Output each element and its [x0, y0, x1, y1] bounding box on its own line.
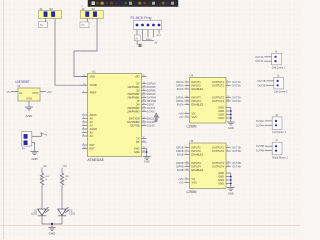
- U1 pin 10 (RST): [82, 148, 88, 150]
- svg-text:OUTPUT2: OUTPUT2: [212, 149, 225, 153]
- U1 pin 14 (1M/PWM4): [142, 86, 147, 88]
- svg-text:D6/PW6: D6/PW6: [147, 91, 156, 93]
- svg-text:VSS: VSS: [192, 181, 197, 185]
- svg-text:Call Linea 2: Call Linea 2: [274, 90, 288, 94]
- svg-text:OUTPUT3: OUTPUT3: [212, 96, 225, 100]
- wire P4 pin1 to VM flag: [32, 135, 42, 137]
- svg-text:U1: U1: [92, 70, 96, 74]
- U1 pin 25 (D4/TXD8): [142, 118, 147, 120]
- ground below U4: [227, 121, 235, 123]
- svg-text:2M/PWM3: 2M/PWM3: [127, 110, 140, 114]
- svg-text:D3/PW3: D3/PW3: [147, 84, 156, 86]
- wire into J7 pin 1: [265, 145, 273, 147]
- LED D1 LED0: [38, 209, 46, 216]
- svg-text:L298N: L298N: [187, 124, 198, 128]
- U5 pin 2 (OUTPUT1): [226, 147, 231, 149]
- J5 pin 1: [277, 80, 279, 82]
- svg-text:INPUT4: INPUT4: [192, 165, 202, 169]
- svg-text:GND: GND: [218, 182, 224, 186]
- U4 pin 4 (VS): [185, 113, 190, 115]
- wire LED common rail: [42, 223, 62, 225]
- svg-text:VS: VS: [192, 177, 196, 181]
- svg-text:U4: U4: [190, 74, 194, 78]
- U1 pin 7 (A3): [82, 132, 88, 134]
- U5 GND pin 1: [226, 172, 231, 174]
- svg-text:EN2B: EN2B: [177, 169, 184, 172]
- U4 pin 2 (OUTPUT1): [226, 81, 231, 83]
- svg-text:OUT2A: OUT2A: [255, 60, 263, 63]
- svg-text:A1: A1: [90, 120, 94, 124]
- svg-text:ENABLE2: ENABLE2: [192, 168, 204, 172]
- junction LED rail: [51, 223, 53, 225]
- sheet border horizontal: [0, 225, 300, 227]
- connector P4 power input: [22, 132, 32, 147]
- jumper J1 pin 2: [51, 12, 55, 17]
- svg-text:OUT1B: OUT1B: [258, 80, 266, 83]
- svg-text:RST: RST: [90, 143, 96, 147]
- U1 pin 23 (2M/PWM0): [142, 107, 147, 109]
- U5 GND pin 4: [226, 183, 231, 185]
- svg-text:RST: RST: [90, 147, 96, 151]
- svg-text:RX: RX: [136, 140, 140, 144]
- U4 GND pin 3: [226, 114, 231, 116]
- svg-text:DA/PWA: DA/PWA: [147, 97, 156, 100]
- U4 pin 10 (INPUT3): [185, 97, 190, 99]
- svg-text:GND: GND: [144, 160, 150, 164]
- ground below LEDs: [48, 227, 56, 229]
- svg-text:AGND: AGND: [90, 127, 98, 131]
- svg-text:GND: GND: [228, 192, 234, 196]
- wire into J4 pin 2: [264, 60, 272, 62]
- U1 pin 27 (D8/TXB): [142, 125, 147, 127]
- svg-text:OUT2B: OUT2B: [258, 84, 266, 87]
- svg-text:ATMEGA8: ATMEGA8: [88, 158, 104, 162]
- wire resistor to LED D1: [41, 185, 43, 209]
- J5 pin 2: [277, 84, 279, 86]
- ground below U1 GND pins: [143, 156, 151, 158]
- U5 GND pin 3: [226, 179, 231, 181]
- wire P1 pin4 down: [153, 30, 155, 38]
- svg-text:A4: A4: [90, 134, 94, 138]
- wire P1 pin3 down: [147, 30, 149, 38]
- junction U1 GND: [146, 151, 148, 153]
- sheet border vertical: [3, 0, 5, 239]
- svg-text:GND: GND: [32, 157, 38, 161]
- wire J2 pin2 to MCU VDD pin: [74, 19, 97, 77]
- pad below P1 pin1: [139, 44, 142, 47]
- U4 pin 14 (OUTPUT4): [226, 100, 231, 102]
- svg-text:AREF: AREF: [90, 91, 97, 95]
- wire D3 down to resistor: [61, 168, 63, 173]
- svg-text:D2/INT: D2/INT: [147, 105, 155, 107]
- svg-text:OUTPUT3: OUTPUT3: [212, 161, 225, 165]
- resistor LB2 1k: [60, 173, 63, 185]
- svg-text:INPUT1: INPUT1: [192, 80, 202, 84]
- svg-text:GND: GND: [134, 147, 140, 151]
- U1 pin 26 (D8/TADB2): [142, 121, 147, 123]
- toolbar overlay fragment: [88, 0, 178, 7]
- wire LED D2 cathode down: [61, 216, 63, 224]
- svg-text:LED2: LED2: [69, 213, 75, 215]
- wire U4 GND pins join: [230, 108, 232, 122]
- U1 pin 2 (ADC6): [82, 114, 88, 116]
- wire P1 pin1 down: [136, 30, 138, 36]
- ground below P4: [31, 151, 39, 153]
- svg-text:1P: 1P: [136, 99, 139, 103]
- svg-text:7.4v: 7.4v: [43, 133, 48, 136]
- wire into J6 pin 2: [265, 124, 273, 126]
- svg-text:U5: U5: [190, 139, 194, 143]
- jumper J2 pin 1: [86, 12, 90, 17]
- U4 pin 12 (INPUT4): [185, 100, 190, 102]
- svg-text:VCDB: VCDB: [90, 83, 97, 87]
- svg-text:+5V: +5V: [47, 90, 52, 94]
- U5 GND pin 2: [226, 176, 231, 178]
- J7 pin 2: [275, 150, 277, 152]
- svg-text:Call Linea 1: Call Linea 1: [272, 65, 286, 69]
- wire into J5 pin 1: [266, 80, 274, 82]
- svg-text:Vin: Vin: [7, 90, 11, 94]
- jumper J1 pin 1: [44, 12, 48, 17]
- svg-text:OUTPUT1: OUTPUT1: [212, 146, 225, 150]
- svg-text:MISO: MISO: [146, 39, 152, 41]
- wire Vin to U3 IN: [11, 91, 18, 93]
- P1 pin 5: [158, 24, 161, 27]
- svg-text:EN2A: EN2A: [177, 104, 184, 107]
- U1 pin 19 (3N): [142, 104, 147, 106]
- junction U5 GND: [230, 176, 232, 178]
- P4 pin 2: [24, 141, 28, 145]
- svg-text:2M/PWM0: 2M/PWM0: [127, 106, 140, 110]
- U4 pin 13 (OUTPUT3): [226, 97, 231, 99]
- P1 pin 1: [136, 24, 139, 27]
- wire P1 pin2 down: [142, 30, 144, 41]
- junction U4 GND: [230, 110, 232, 112]
- svg-text:INPUT4: INPUT4: [192, 99, 202, 103]
- svg-text:GND: GND: [218, 171, 224, 175]
- U1 pin 31 (RX): [142, 141, 147, 143]
- U5 pin 9 (VSS): [185, 182, 190, 184]
- J7 pin 1: [275, 145, 277, 147]
- svg-text:OUT2A: OUT2A: [232, 85, 241, 88]
- P4 pin 1: [24, 134, 28, 138]
- U1 pin 1 (AREF): [82, 92, 88, 94]
- net flag 5V below J1: [39, 22, 48, 28]
- jumper J2 pin 2: [93, 12, 97, 17]
- ground below U3: [25, 106, 33, 108]
- wire U1 GND pins join: [146, 149, 148, 157]
- U5 pin 14 (OUTPUT4): [226, 166, 231, 168]
- svg-text:5V: 5V: [40, 23, 43, 27]
- J4 pin 2: [274, 60, 276, 62]
- svg-text:OUTPUT1: OUTPUT1: [212, 80, 225, 84]
- svg-text:GND: GND: [218, 178, 224, 182]
- svg-text:INPUT2: INPUT2: [192, 149, 202, 153]
- svg-text:VSS: VSS: [192, 115, 197, 119]
- svg-text:GND: GND: [218, 109, 224, 113]
- U4 pin 5 (INPUT1): [185, 81, 190, 83]
- wire U3 OUT to +5V: [40, 91, 46, 93]
- net flag box below P1 pin1: [134, 35, 140, 41]
- svg-text:OUT3B: OUT3B: [256, 145, 264, 148]
- svg-text:+PD: +PD: [134, 75, 139, 79]
- svg-text:D12/MI: D12/MI: [147, 122, 155, 124]
- svg-text:D5/PW5: D5/PW5: [147, 87, 156, 89]
- J4 pin 1: [274, 56, 276, 58]
- svg-text:5V: 5V: [82, 23, 85, 27]
- svg-text:OUT4B: OUT4B: [232, 166, 241, 169]
- svg-text:OUT: OUT: [32, 91, 38, 95]
- LED D2 LED2: [58, 209, 66, 216]
- svg-text:OUT1A: OUT1A: [255, 56, 263, 59]
- svg-text:2N: 2N: [136, 82, 139, 86]
- wire into J6 pin 1: [265, 120, 273, 122]
- junction U5 GND: [230, 179, 232, 181]
- svg-text:GND: GND: [218, 116, 224, 120]
- wire J1 pin2 to MCU VCC pin: [55, 19, 88, 86]
- svg-text:ENABLE1: ENABLE1: [192, 87, 204, 91]
- svg-text:OUTPUT4: OUTPUT4: [212, 165, 225, 169]
- P1 pin 2: [141, 24, 144, 27]
- U5 pin 10 (INPUT3): [185, 162, 190, 164]
- J6 pin 2: [275, 124, 277, 126]
- svg-text:GND: GND: [26, 97, 32, 101]
- wire J1 pin1 to 5V flag: [45, 19, 47, 22]
- svg-text:D8/TADB2: D8/TADB2: [127, 120, 140, 124]
- svg-text:3N: 3N: [136, 89, 139, 93]
- svg-text:D13/SC: D13/SC: [147, 126, 155, 128]
- svg-text:INPUT3: INPUT3: [192, 161, 202, 165]
- U4 GND pin 4: [226, 117, 231, 119]
- svg-text:1M/PWM4: 1M/PWM4: [127, 85, 140, 89]
- svg-text:VDD: VDD: [90, 75, 96, 79]
- U5 pin 4 (VS): [185, 178, 190, 180]
- junction U4 GND: [230, 114, 232, 116]
- U1 pin 30 (TX): [142, 138, 147, 140]
- svg-text:ENABLE1: ENABLE1: [192, 153, 204, 157]
- svg-text:INPUT2: INPUT2: [192, 84, 202, 88]
- svg-text:VS: VS: [192, 112, 196, 116]
- U4 pin 9 (VSS): [185, 116, 190, 118]
- wire resistor to LED D2: [61, 185, 63, 209]
- U1 pin 12 (VCDB): [82, 84, 88, 86]
- U1 pin 9 (RST): [82, 144, 88, 146]
- ground below U5: [227, 187, 235, 189]
- U1 pin 8 (A4): [82, 135, 88, 137]
- svg-text:ADC6: ADC6: [90, 113, 97, 117]
- mouse cursor artifact: [154, 113, 159, 122]
- U4 GND pin 1: [226, 107, 231, 109]
- svg-text:A0: A0: [90, 117, 94, 121]
- svg-text:RST: RST: [157, 35, 162, 37]
- wire D2 down to resistor: [41, 168, 43, 173]
- svg-text:GND: GND: [218, 113, 224, 117]
- junction U4 GND: [230, 117, 232, 119]
- wire LED D1 cathode down: [41, 216, 43, 224]
- U4 pin 6 (ENABLE1): [185, 88, 190, 90]
- U1 pin 6 (AGND): [82, 128, 88, 130]
- svg-text:2M/PWM2: 2M/PWM2: [127, 92, 140, 96]
- svg-text:+5V: +5V: [179, 182, 184, 185]
- svg-text:A3: A3: [90, 131, 94, 135]
- P1 pin 4: [152, 24, 155, 27]
- svg-text:Right Motor 1: Right Motor 1: [272, 155, 288, 159]
- svg-text:GND: GND: [26, 114, 34, 118]
- wire U3 GND pin down: [28, 101, 30, 107]
- net flag 5V below J2: [80, 22, 89, 28]
- svg-text:2M/PWM1: 2M/PWM1: [127, 96, 140, 100]
- U1 pin 4 (A1): [82, 121, 88, 123]
- svg-text:GND: GND: [49, 231, 57, 235]
- svg-text:LM7805T: LM7805T: [16, 80, 30, 84]
- svg-text:D7/AIN: D7/AIN: [147, 111, 155, 114]
- wire U5 GND pins join: [230, 173, 232, 187]
- svg-text:OUT3A: OUT3A: [256, 120, 264, 123]
- IC U1 ATMEGA8 body: [88, 74, 142, 157]
- wire into J5 pin 2: [266, 84, 274, 86]
- wire into J4 pin 1: [264, 56, 272, 58]
- U5 pin 13 (OUTPUT3): [226, 162, 231, 164]
- wire P1 pin2 horizontal: [143, 40, 155, 42]
- svg-text:A2: A2: [90, 124, 94, 128]
- U4 pin 3 (OUTPUT2): [226, 85, 231, 87]
- svg-text:OUT2B: OUT2B: [232, 150, 241, 153]
- svg-text:D8/TXB: D8/TXB: [130, 124, 139, 128]
- svg-text:5V: 5V: [155, 42, 158, 45]
- svg-text:OUTPUT4: OUTPUT4: [212, 99, 225, 103]
- U1 pin 28 (GND): [142, 148, 147, 150]
- U5 pin 6 (ENABLE1): [185, 154, 190, 156]
- resistor LB1 1k: [40, 173, 43, 185]
- U5 pin 5 (INPUT1): [185, 147, 190, 149]
- U4 pin 7 (INPUT2): [185, 85, 190, 87]
- U1 pin 24 (2M/PWM3): [142, 111, 147, 113]
- svg-text:LED0: LED0: [31, 213, 37, 215]
- svg-text:EN1A: EN1A: [177, 88, 184, 91]
- regulator U3 body: [18, 88, 40, 101]
- svg-text:D4/TXD8: D4/TXD8: [129, 117, 140, 121]
- U1 pin 17 (2M/PWM1): [142, 97, 147, 99]
- U5 pin 3 (OUTPUT2): [226, 150, 231, 152]
- svg-text:D8/CLK: D8/CLK: [147, 119, 156, 121]
- wire J2 pin1 to 5V flag: [86, 19, 88, 22]
- wire P4 pin2 to ground: [32, 143, 35, 152]
- svg-text:D4/XCK: D4/XCK: [147, 108, 156, 110]
- U1 pin 5 (A2): [82, 125, 88, 127]
- U5 pin 7 (INPUT2): [185, 150, 190, 152]
- U5 pin 11 (ENABLE2): [185, 169, 190, 171]
- U5 pin 12 (INPUT4): [185, 166, 190, 168]
- wire rail to ground: [51, 224, 53, 228]
- svg-text:INPUT3: INPUT3: [192, 96, 202, 100]
- svg-text:P1 MCU Prog: P1 MCU Prog: [131, 16, 152, 20]
- U1 pin 16 (2M/PWM2): [142, 93, 147, 95]
- junction U5 GND: [230, 183, 232, 185]
- U1 pin 11 (VDD): [82, 76, 88, 78]
- U4 pin 11 (ENABLE2): [185, 104, 190, 106]
- svg-text:OUT4B: OUT4B: [256, 150, 264, 153]
- U4 GND pin 2: [226, 110, 231, 112]
- wire P1 pin5 down: [158, 30, 160, 34]
- P1 pin 3: [147, 24, 150, 27]
- svg-text:GND: GND: [228, 126, 234, 130]
- U1 pin 18 (1P): [142, 100, 147, 102]
- U1 pin 15 (3N): [142, 90, 147, 92]
- svg-text:OUT4A: OUT4A: [232, 100, 241, 103]
- J6 pin 1: [275, 120, 277, 122]
- svg-text:OUTPUT2: OUTPUT2: [212, 84, 225, 88]
- svg-text:GND: GND: [218, 175, 224, 179]
- U1 pin 13 (2N): [142, 83, 147, 85]
- svg-text:5V: 5V: [135, 38, 138, 40]
- svg-text:IN: IN: [20, 91, 23, 95]
- svg-text:3N: 3N: [136, 103, 139, 107]
- svg-text:GND: GND: [218, 106, 224, 110]
- wire into J7 pin 2: [265, 150, 273, 152]
- svg-text:+5V: +5V: [179, 116, 184, 119]
- svg-text:TX: TX: [136, 137, 140, 141]
- svg-text:L298N: L298N: [187, 190, 198, 194]
- U1 pin 20 (+PD): [142, 76, 147, 78]
- svg-text:Left Motor 1: Left Motor 1: [272, 130, 286, 134]
- svg-text:INPUT1: INPUT1: [192, 146, 202, 150]
- svg-text:D9/PW9: D9/PW9: [147, 94, 156, 96]
- svg-text:OUT4A: OUT4A: [256, 124, 264, 127]
- svg-text:DB/PWB: DB/PWB: [147, 101, 157, 103]
- U1 pin 29 (GND): [142, 151, 147, 153]
- wire below net flag: [136, 41, 138, 45]
- svg-text:ENABLE2: ENABLE2: [192, 103, 204, 107]
- svg-text:EN1B: EN1B: [177, 154, 184, 157]
- svg-text:GND: GND: [134, 150, 140, 154]
- U1 pin 3 (A0): [82, 118, 88, 120]
